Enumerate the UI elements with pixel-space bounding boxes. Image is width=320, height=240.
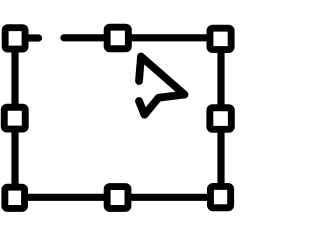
cursor arrow bbox=[139, 57, 185, 115]
handle bottom-middle bbox=[107, 187, 128, 209]
wire: top line bbox=[64, 34, 210, 41]
handle middle-left bbox=[4, 107, 25, 129]
handle bottom-right bbox=[210, 186, 230, 207]
handle top-right bbox=[210, 28, 231, 49]
handle bottom-left bbox=[5, 187, 25, 208]
handle top-left bbox=[5, 28, 25, 49]
wire: right line bbox=[217, 45, 224, 190]
wire: bottom line bbox=[22, 194, 212, 201]
handle middle-right bbox=[210, 108, 232, 130]
wire: left line bbox=[11, 45, 18, 192]
handle top-middle bbox=[107, 27, 128, 49]
wire: top stub from top-left handle bbox=[26, 34, 39, 41]
